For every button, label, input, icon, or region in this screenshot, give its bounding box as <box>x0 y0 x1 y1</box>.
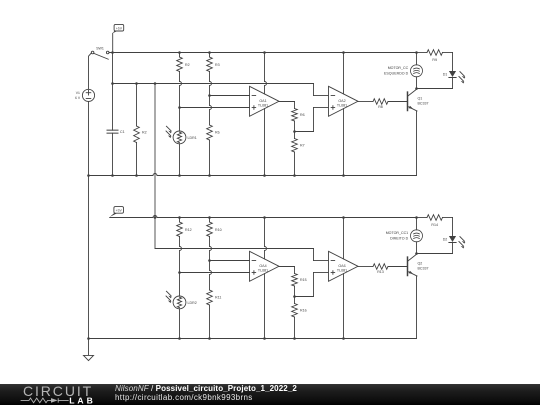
svg-text:LAB: LAB <box>69 395 96 405</box>
